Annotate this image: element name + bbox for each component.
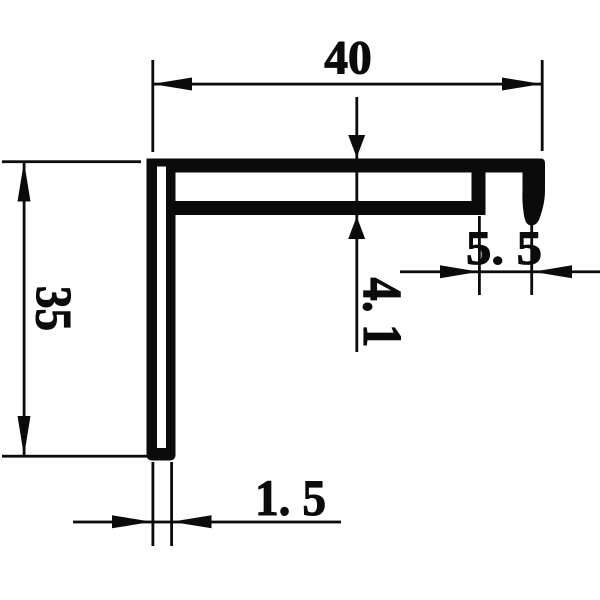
dimension 1.5: right extension line — [170, 462, 173, 546]
dimension 1.5: right arrowhead (pointing left) — [172, 515, 212, 528]
dimension 1.5: left arrowhead (pointing right) — [112, 515, 152, 528]
profile left leg outer wall — [147, 159, 158, 454]
profile right hook (teardrop lip) — [522, 170, 545, 226]
dimension 4.1: upper arrowhead (pointing down) — [348, 135, 365, 158]
dimension 40: right extension line — [541, 60, 544, 151]
svg-text:5. 5: 5. 5 — [466, 222, 542, 275]
dimension 40: left extension line — [151, 60, 154, 152]
dimension 35: top extension line — [2, 160, 141, 163]
dimension 5.5: left arrowhead (pointing right) — [440, 265, 479, 278]
dimension 40: dimension line — [152, 83, 542, 86]
dimension 5.5: right extension line — [530, 224, 533, 295]
profile leg bottom cap — [147, 448, 176, 461]
dimension 35: dimension line — [23, 162, 26, 457]
profile left leg inner wall — [166, 167, 176, 453]
dimension 35: value label (rotated) — [25, 286, 81, 331]
dimension 4.1: vertical dimension line through flange — [355, 97, 358, 352]
dimension 1.5: dimension line — [73, 521, 341, 524]
dimension 35: bottom extension line — [2, 455, 152, 458]
dimension 5.5: dimension line — [400, 270, 600, 273]
dimension 40: right arrowhead — [502, 78, 542, 91]
dimension 4.1: lower arrowhead (pointing up) — [348, 217, 365, 240]
profile inner lip and step wall — [170, 173, 486, 216]
dimension 40: left arrowhead — [152, 78, 192, 91]
svg-text:1. 5: 1. 5 — [255, 471, 326, 527]
dimension 4.1: value label (rotated) — [352, 278, 413, 348]
leg slot white notch into flange — [157, 167, 166, 174]
dimension 35: top arrowhead — [18, 162, 31, 202]
dimension 5.5: left extension line — [478, 216, 481, 295]
dimension 5.5: right arrowhead (pointing left) — [533, 265, 572, 278]
svg-text:40: 40 — [324, 32, 372, 85]
dimension 35: bottom arrowhead — [18, 416, 31, 456]
profile top flange — [147, 159, 546, 173]
dimension 1.5: left extension line — [152, 462, 155, 546]
svg-text:4. 1: 4. 1 — [352, 278, 413, 348]
svg-text:35: 35 — [25, 286, 81, 331]
